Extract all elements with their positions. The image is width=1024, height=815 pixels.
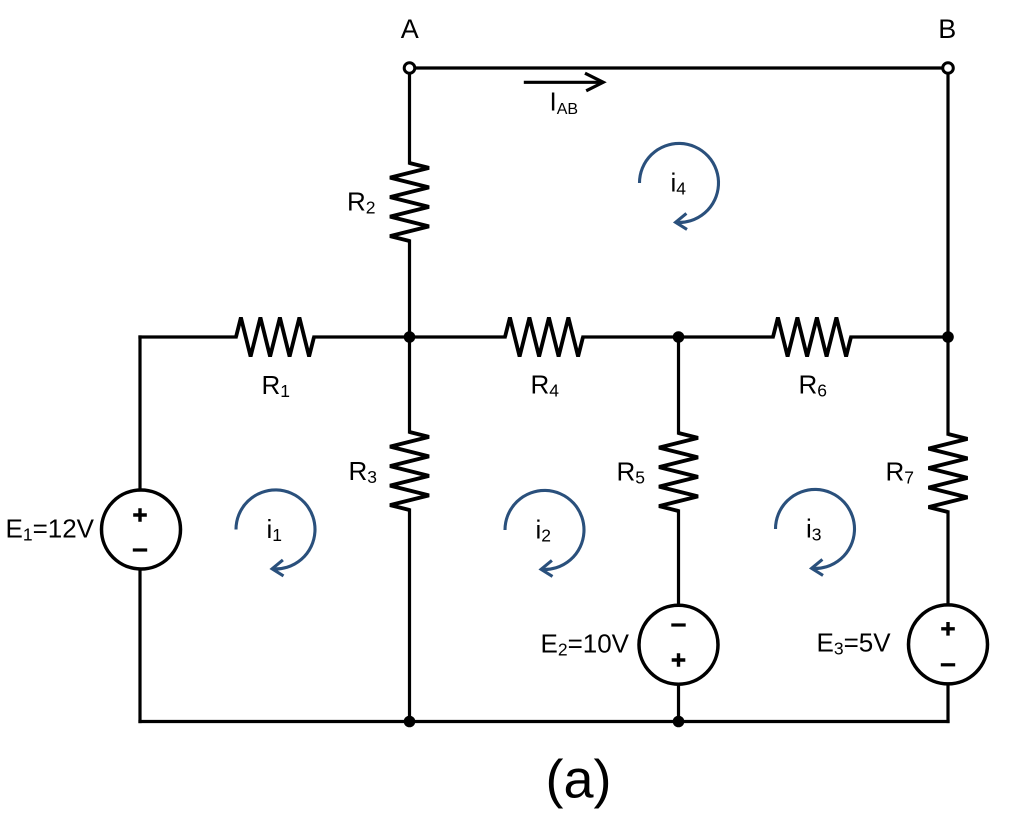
wire R6 to node3 [851,335,948,338]
terminal node A [404,63,415,74]
wire middle left segment [140,335,236,338]
resistor R5 [659,433,698,511]
wire R3 to bottom [408,510,411,722]
mesh current arrow i4 [640,143,719,229]
svg-text:E1=12V: E1=12V [6,513,95,544]
svg-text:B: B [938,14,956,44]
resistor R2 [390,163,429,241]
wire left branch upper [138,337,141,490]
junction node1 [404,331,416,343]
current arrow I_AB [524,73,603,91]
resistor R3 [390,432,429,510]
resistor R7 [929,434,968,512]
mesh current arrow i2 [505,490,584,576]
wire R4 to node2 [583,335,679,338]
junction node3 [942,331,954,343]
wire R2 to middle node [408,241,411,337]
wire R1 to node1 [314,335,410,338]
voltage source E2 [639,605,718,684]
voltage source E1 [102,490,181,569]
wire A to R2 [408,68,411,163]
wire node2 to R5 [677,337,680,433]
resistor R4 [505,318,583,357]
junction node2 [673,331,685,343]
mesh current arrow i1 [236,490,315,576]
wire R5 to E2 [677,511,680,605]
wire left branch lower [138,569,141,722]
wire top A-B [410,66,949,69]
voltage source E3 [909,605,988,684]
resistor R1 [236,318,314,357]
svg-text:A: A [401,14,419,44]
wire node3 to R7 [946,337,949,434]
wire E2 to bottom [677,684,680,722]
wire R7 to E3 [946,512,949,605]
svg-text:E3=5V: E3=5V [817,628,892,659]
wire E3 to bottom [946,684,949,722]
mesh current arrow i3 [775,489,854,575]
wire node1 to R3 [408,337,411,432]
wire node2 to R6 [679,335,774,338]
wire B down right side [946,68,949,337]
wire bottom rail [140,720,948,723]
svg-text:(a): (a) [546,750,612,810]
svg-text:E2=10V: E2=10V [541,629,630,660]
junction bottom node1 [404,716,416,728]
wire node1 to R4 [410,335,506,338]
junction bottom node2 [673,716,685,728]
terminal node B [943,63,954,74]
resistor R6 [773,318,851,357]
